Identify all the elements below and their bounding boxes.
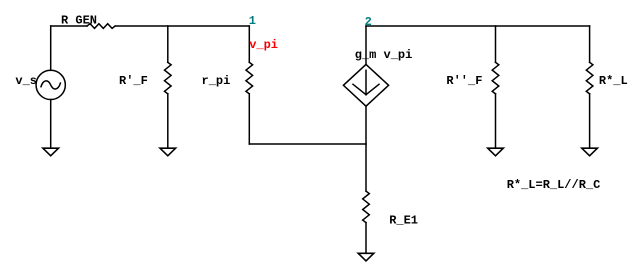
svg-text:1: 1: [249, 14, 256, 28]
svg-text:r_pi: r_pi: [202, 74, 231, 88]
svg-text:R*_L: R*_L: [599, 74, 628, 88]
svg-text:R_E1: R_E1: [389, 213, 418, 227]
svg-text:R''_F: R''_F: [446, 74, 482, 88]
svg-text:v_s: v_s: [15, 74, 37, 88]
svg-text:v_pi: v_pi: [249, 38, 278, 52]
svg-text:R GEN: R GEN: [61, 14, 97, 28]
svg-text:g_m v_pi: g_m v_pi: [355, 48, 413, 62]
svg-text:R*_L=R_L//R_C: R*_L=R_L//R_C: [507, 178, 601, 192]
svg-text:R'_F: R'_F: [119, 74, 148, 88]
svg-text:2: 2: [365, 15, 372, 29]
